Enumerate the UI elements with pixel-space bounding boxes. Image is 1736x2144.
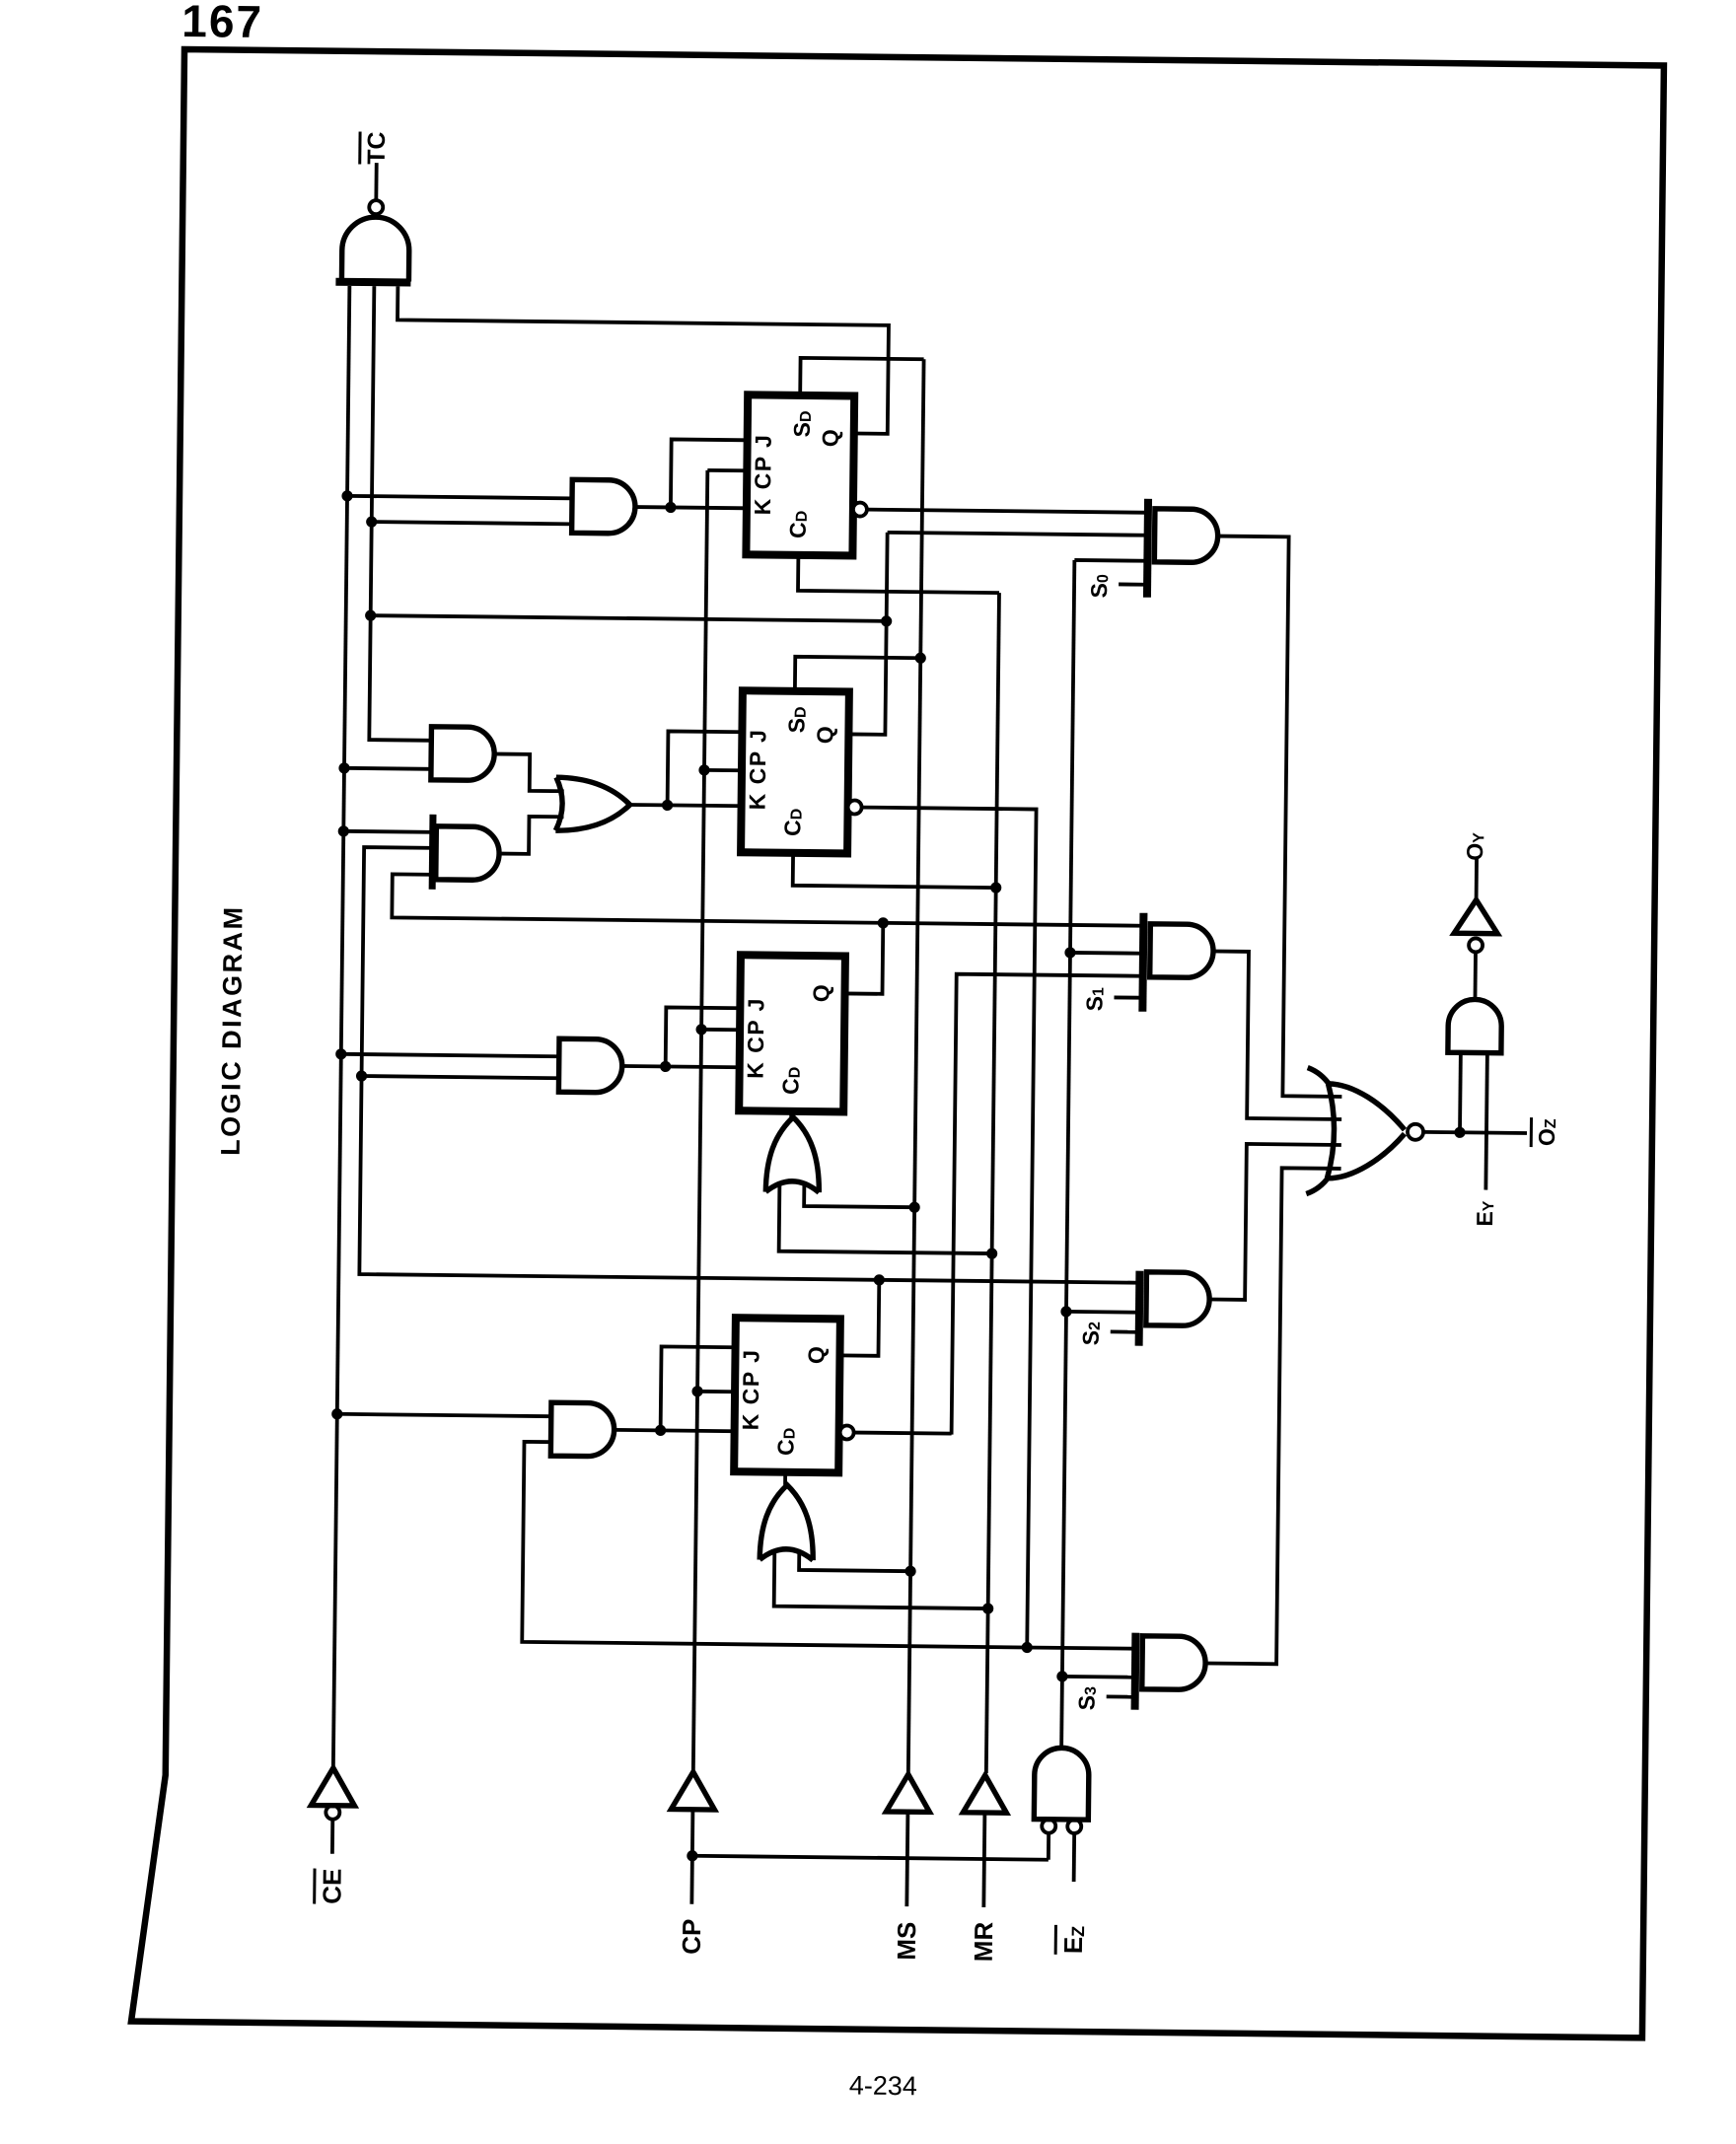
svg-text:167: 167 [181,0,263,47]
node V2-A1 [366,516,377,527]
svg-text:CP: CP [677,1919,706,1955]
wire Oy stub [1475,858,1479,899]
or gate O2 below FF3 [765,1117,820,1193]
nor O4 output bubble [1408,1124,1423,1140]
node CE-A5 [331,1408,342,1419]
FF3 label [743,997,769,1079]
and gate A3 [436,826,500,881]
EZ nand left bubble [1042,1820,1055,1833]
MS buffer triangle [886,1774,929,1812]
flip-flop FF3 [739,955,845,1111]
wire FF4 Q riser [839,1279,879,1355]
node EZ-S1 [1064,947,1075,958]
FF1 label [789,410,815,437]
and gate A4 [558,1038,622,1093]
wire O1 out to FF2 K [630,805,744,806]
node CP-EZ tap [687,1850,697,1861]
nand N1 input bar [335,278,410,287]
wire O2 in left to MR bus [779,1184,993,1253]
node A4 out [660,1061,671,1072]
wire A5 out to FF4 J [661,1346,736,1431]
node CE-A2 [338,762,349,773]
node O2-MS [908,1202,919,1213]
s2 and gate [1146,1272,1210,1326]
wire FF2 Qbar riser to S3 row [852,808,1036,1648]
node O3-MR [982,1603,993,1613]
inverter triangle to Oy [1454,899,1497,933]
wire FF2 Qbar row to A5 in2 [522,1442,1137,1649]
wire CE to A5 in1 [337,1414,551,1416]
node CE-A3 [338,825,349,836]
wire EZ to S1 in2 [1070,951,1143,956]
node O2-MR [986,1248,997,1258]
FF2 label [783,706,809,733]
node EZ-S3 [1056,1671,1067,1681]
wire A4 out to FF3 J [666,1007,741,1067]
wire FF2 CD to MR bus [793,853,996,888]
node Oz [1454,1127,1465,1138]
label MR [969,1921,998,1962]
wire S3 label stub [1107,1694,1132,1698]
wire FF4 Qbar riser to S1 in3 [952,974,1143,1437]
wire EZ to S3 in2 [1062,1675,1135,1679]
CE inverter bubble [325,1806,339,1820]
wire A2 out to O1 [494,753,564,791]
wire FF3Q node to A3 in3 [392,874,1143,925]
label MS [892,1922,921,1961]
wire TC stub [374,163,378,199]
label Ez [1055,1925,1088,1955]
node EZ-S2 [1060,1306,1071,1317]
wire CE to A3 in1 [343,831,436,832]
svg-text:K CP J: K CP J [743,997,769,1079]
title LOGIC DIAGRAM [216,904,249,1156]
wire AND A6 left pin [1458,1052,1463,1132]
wire A6 out [1474,952,1478,999]
FF2 label [745,728,771,810]
wire MS input stub [906,1812,907,1906]
wire O1 out to FF2 J [668,731,743,806]
wire S0 out to NOR in1 [1211,536,1347,1097]
wire S2 out to NOR in3 [1209,1144,1341,1301]
svg-text:K CP J: K CP J [738,1348,764,1430]
and gate A5 [550,1402,615,1457]
wire Oz output [1423,1132,1527,1133]
FF4 label [772,1428,798,1456]
wire CE to A2 in2 [344,766,431,771]
svg-text:K CP J: K CP J [745,728,771,810]
s0 and gate [1154,509,1218,563]
svg-text:LOGIC DIAGRAM: LOGIC DIAGRAM [216,904,249,1156]
svg-text:MR: MR [969,1921,998,1962]
wire A1 out to FF1 J [671,439,748,508]
wire V2 to FF2Q node [371,615,887,621]
wire EZ bus to S0 gate [1074,558,1147,563]
wire A1 out to FF1 K [635,507,747,508]
or gate O1 [555,777,630,831]
node FF2 CP [698,764,709,775]
svg-text:MS: MS [892,1922,921,1961]
wire V2 to A1 in2 [372,522,572,524]
FF1 label [750,433,776,515]
node CE-A1 [341,490,352,501]
wire O3 in left to MR bus [774,1552,989,1608]
svg-text:TC: TC [363,131,391,165]
wire EZ to S2 in2 [1066,1310,1139,1315]
svg-text:Q: Q [803,1346,829,1364]
s0 input bar [1143,499,1152,598]
a3 input bar [429,815,437,890]
label Ey [1472,1200,1497,1227]
wire Ez stub [1072,1833,1076,1882]
label CP [677,1919,706,1955]
CP buffer triangle [671,1772,714,1810]
wire FF4Q to A4 in2 [362,1076,559,1078]
wire Ey pin [1485,1053,1487,1190]
wire CE to A4 in1 [341,1054,559,1056]
node FF3 CP [695,1024,706,1035]
wire CP bus V5 [693,470,707,1770]
FF2 Qbar bubble [848,800,862,814]
wire O2 in right to MS bus [804,1182,914,1207]
FF4 Qbar bubble [840,1425,854,1439]
flip-flop FF1 [746,394,854,555]
s2 input bar [1135,1271,1144,1346]
nand N1 output bubble [369,200,383,214]
wire A3 out to O1 [499,817,563,855]
CE inverter triangle [311,1768,354,1806]
wire FF4 CD stub [783,1472,787,1485]
wire FF3 Q riser [845,922,884,993]
svg-text:K CP J: K CP J [750,433,776,515]
flip-flop FF2 [741,690,849,853]
label CE [315,1869,347,1904]
wire MS bus B1 [908,359,924,1772]
wire FF2 SD to MS bus [795,657,920,692]
wire FF1 CD to MR bus [798,555,999,593]
label S2 [1078,1322,1104,1346]
node FF4 CP [691,1386,702,1396]
s1 input bar [1138,913,1147,1012]
wire nand-in3 to FF1 Q [397,286,890,433]
and gate A2 [431,727,495,781]
wire FF3 CP stub [701,1028,740,1032]
flip-flop FF4 [734,1318,840,1472]
s3 input bar [1131,1633,1140,1710]
wire O3 in right to MS bus [799,1550,910,1571]
FF4 label [738,1348,764,1430]
s1 and gate [1150,924,1214,978]
label S3 [1074,1686,1100,1711]
node A5 out [655,1425,666,1436]
label S0 [1086,574,1112,599]
wire S2 label stub [1111,1330,1136,1334]
wire MR input stub [983,1813,984,1907]
wire FF2 CP stub [704,768,742,772]
wire FF4Q node to A3 in2 [359,847,1144,1283]
svg-text:Q: Q [818,429,843,447]
node FF2 SD join [915,653,926,664]
wire CP tap to EZ gate [692,1856,1049,1860]
label Oy [1462,832,1487,861]
wire CE to A1 in1 [347,496,572,499]
wire EZ left stub [1047,1833,1050,1860]
label TC [360,131,391,165]
node FF2Qbar at S3 row [1022,1642,1033,1653]
svg-text:4-234: 4-234 [849,2071,917,2102]
MR buffer triangle [963,1775,1006,1813]
node O1 out [662,800,673,811]
wire FF4 CP stub [697,1390,735,1394]
svg-text:Q: Q [812,726,837,744]
node CE-A4 [335,1048,346,1059]
svg-text:Q: Q [808,984,833,1002]
FF1 label [785,511,811,538]
node FF4Q-A4 tap [356,1070,367,1081]
FF3 label [777,1067,803,1095]
node FF3Q riser join [878,917,889,928]
wire V2 nand-in2 to and A2 [369,286,436,741]
wire CP to FF1 CP [707,468,745,472]
wire S1 label stub [1114,996,1139,1000]
or gate O3 below FF4 [759,1485,814,1561]
wire FF1 SD loop to MS bus [800,358,923,396]
wire EZ bus [1061,560,1074,1750]
wire A5 out to FF4 K [615,1430,735,1431]
svg-text:CE: CE [317,1869,346,1904]
and gate A6 [1448,999,1502,1053]
node FF2 CD join [990,882,1001,893]
wire FF4 Qbar to riser [854,1433,952,1434]
wire FF2 Q node riser [848,532,887,734]
nor gate O4 [1327,1084,1405,1179]
wire S1 out to NOR in2 [1211,952,1343,1119]
node FF2Q riser [881,615,892,626]
wire CP input stub [691,1810,692,1904]
wire S3 out to NOR in4 [1205,1168,1341,1665]
wire FF1 Qbar to S0 [867,510,1151,513]
label Oz [1531,1117,1559,1147]
label S1 [1081,987,1107,1012]
FF1 Qbar bubble [853,502,867,516]
inverter bubble A6 [1469,938,1483,952]
wire CE bus V1 [333,286,350,1766]
wire FF2Q riser to S0 in2 [888,533,1148,536]
and gate A1 [572,479,636,534]
node V2 tap [365,609,376,620]
wire MR bus B2 [986,593,999,1773]
wire FF3 CD stub [789,1111,793,1117]
wire S0 label stub [1119,583,1144,587]
nand gate N1 [341,217,409,282]
EZ nand gate [1034,1748,1089,1820]
node FF4Q riser join [874,1274,885,1285]
wire A4 out to FF3 K [622,1066,740,1067]
wire CE stub [330,1820,334,1854]
node O3-MS [904,1566,915,1577]
FF2 label [779,809,805,836]
EZ nand right bubble [1067,1820,1081,1833]
node A1 out [665,502,676,513]
s3 and gate [1142,1636,1206,1690]
